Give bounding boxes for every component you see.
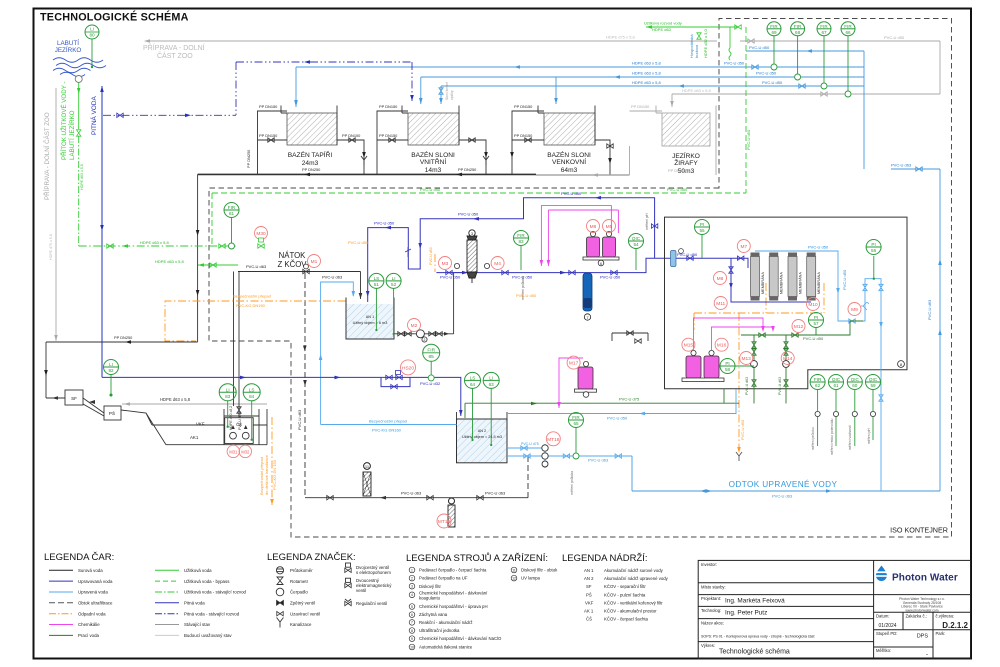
svg-text:59: 59: [870, 383, 876, 388]
svg-text:M16: M16: [717, 343, 727, 349]
svg-text:LI: LI: [109, 362, 113, 367]
svg-text:QIC: QIC: [851, 377, 860, 382]
svg-text:56: 56: [871, 248, 877, 253]
svg-text:PVC-U d50: PVC-U d50: [607, 416, 628, 421]
svg-text:PP DN150: PP DN150: [259, 104, 278, 109]
svg-text:SF: SF: [71, 396, 77, 401]
svg-text:BAZÉN SLONI: BAZÉN SLONI: [411, 150, 455, 159]
svg-text:VENKOVNÍ: VENKOVNÍ: [552, 157, 586, 166]
svg-text:24m3: 24m3: [302, 160, 319, 167]
svg-text:PVC-KG DN160: PVC-KG DN160: [372, 428, 402, 433]
svg-text:PVC-KG DN150: PVC-KG DN150: [236, 303, 266, 308]
svg-text:10: 10: [410, 645, 414, 649]
svg-text:HDPE d75 x 5,8: HDPE d75 x 5,8: [606, 35, 635, 40]
svg-text:HDPE d63 x 5,8: HDPE d63 x 5,8: [160, 397, 191, 402]
svg-text:měření vodivosti: měření vodivosti: [848, 425, 852, 450]
svg-text:Photon Water: Photon Water: [892, 573, 958, 584]
svg-text:www.photonwater.com: www.photonwater.com: [906, 608, 939, 612]
svg-text:82: 82: [108, 368, 114, 373]
svg-text:PP DN250: PP DN250: [302, 167, 321, 172]
svg-text:PVC-U d50: PVC-U d50: [884, 35, 905, 40]
svg-text:PVC-U d50: PVC-U d50: [749, 45, 770, 50]
svg-text:ISO KONTEJNER: ISO KONTEJNER: [890, 526, 948, 535]
svg-text:PVC-U d63: PVC-U d63: [401, 491, 422, 496]
svg-text:VKF: VKF: [196, 422, 205, 427]
svg-text:M7: M7: [740, 244, 747, 250]
svg-text:PP DN150: PP DN150: [514, 104, 533, 109]
svg-text:PVC-U d50: PVC-U d50: [429, 247, 433, 265]
svg-text:Stávající stav: Stávající stav: [184, 622, 211, 627]
svg-text:LEGENDA NÁDRŽÍ:: LEGENDA NÁDRŽÍ:: [562, 553, 648, 564]
svg-text:2: 2: [424, 338, 426, 342]
svg-text:M3: M3: [442, 261, 449, 267]
svg-text:M14: M14: [783, 356, 793, 362]
svg-text:HDPE d63 x 5,8: HDPE d63 x 5,8: [632, 71, 661, 76]
svg-text:PP DN150: PP DN150: [259, 133, 278, 138]
svg-text:Rotametr: Rotametr: [290, 579, 309, 584]
svg-text:PI: PI: [725, 361, 729, 366]
svg-text:PP DN150: PP DN150: [514, 133, 533, 138]
svg-text:Stupeň PD:: Stupeň PD:: [876, 631, 897, 636]
svg-text:Místo stavby:: Místo stavby:: [701, 585, 726, 590]
svg-text:63: 63: [489, 382, 495, 387]
svg-text:51: 51: [374, 282, 380, 287]
svg-text:PP DN250: PP DN250: [458, 167, 477, 172]
svg-text:FIR: FIR: [820, 24, 828, 29]
svg-text:PVC-U d63: PVC-U d63: [778, 377, 782, 395]
svg-text:Technolog:: Technolog:: [701, 608, 721, 613]
svg-text:Reakční - akumulační nádrž: Reakční - akumulační nádrž: [419, 620, 473, 625]
svg-text:ŽIRAFY: ŽIRAFY: [674, 158, 698, 167]
svg-text:Užitkový rozvod vody: Užitkový rozvod vody: [644, 21, 682, 26]
svg-text:PVC-U d63: PVC-U d63: [297, 409, 302, 430]
svg-text:LS: LS: [470, 375, 476, 380]
svg-text:HDPE d63 x 5,8: HDPE d63 x 5,8: [80, 164, 84, 190]
svg-text:PVC-U d32: PVC-U d32: [420, 381, 441, 386]
svg-text:HDPE d63 x 5,8: HDPE d63 x 5,8: [632, 80, 661, 85]
svg-text:PVC-U d50: PVC-U d50: [803, 336, 824, 341]
svg-text:měření průtoku: měření průtoku: [570, 471, 574, 495]
svg-text:M6: M6: [590, 224, 597, 230]
svg-text:M31: M31: [229, 449, 238, 454]
svg-text:8: 8: [411, 629, 413, 633]
svg-text:D.2.1.2: D.2.1.2: [942, 621, 968, 630]
svg-text:61: 61: [833, 383, 839, 388]
svg-text:QIC: QIC: [632, 236, 641, 241]
svg-text:PVC-U d50: PVC-U d50: [561, 191, 582, 196]
svg-text:M15: M15: [684, 343, 694, 349]
svg-text:QIC: QIC: [869, 377, 878, 382]
svg-text:M2: M2: [411, 323, 418, 329]
svg-text:52: 52: [391, 282, 397, 287]
svg-text:KČOV - pulzní šachta: KČOV - pulzní šachta: [604, 592, 646, 597]
svg-text:FIR: FIR: [427, 347, 435, 353]
svg-text:č.výkresu:: č.výkresu:: [936, 614, 955, 619]
svg-text:Odpadní voda: Odpadní voda: [78, 611, 106, 616]
svg-text:PŘÍPRAVA - DOLNÍ ČÁST ZOO: PŘÍPRAVA - DOLNÍ ČÁST ZOO: [43, 112, 51, 200]
svg-text:80: 80: [89, 33, 95, 38]
svg-text:Užitková voda - stávající rozv: Užitková voda - stávající rozvod: [184, 590, 247, 595]
svg-text:Měřítko:: Měřítko:: [876, 648, 891, 653]
svg-text:12: 12: [512, 576, 516, 580]
svg-text:Užitný objem = 24,5 m3: Užitný objem = 24,5 m3: [462, 435, 502, 439]
svg-text:Ing. Peter Putz: Ing. Peter Putz: [725, 610, 767, 617]
svg-text:Datum:: Datum:: [876, 614, 890, 619]
svg-text:M13: M13: [742, 356, 752, 362]
svg-text:3: 3: [411, 585, 413, 589]
svg-text:MEMBRÁNA: MEMBRÁNA: [799, 272, 803, 294]
svg-text:PI: PI: [700, 222, 704, 227]
svg-text:PVC-U d63: PVC-U d63: [485, 491, 506, 496]
svg-text:Budoucí uvažovaný stav: Budoucí uvažovaný stav: [184, 633, 232, 638]
svg-text:Upravená voda: Upravená voda: [78, 590, 108, 595]
svg-text:Chemické hospodářství - úprava: Chemické hospodářství - úprava pH: [419, 604, 488, 609]
svg-text:FIR: FIR: [844, 24, 852, 29]
svg-text:64m3: 64m3: [561, 167, 578, 174]
svg-text:PI: PI: [814, 315, 818, 320]
svg-text:VKF: VKF: [585, 600, 594, 605]
svg-text:AK 1: AK 1: [584, 609, 594, 614]
svg-text:PVC-U d50: PVC-U d50: [420, 187, 441, 192]
svg-text:LEGENDA ČAR:: LEGENDA ČAR:: [44, 552, 114, 563]
svg-text:BAZÉN TAPÍŘI: BAZÉN TAPÍŘI: [288, 150, 333, 159]
svg-text:Automatická tlaková stanice: Automatická tlaková stanice: [419, 645, 473, 650]
svg-text:01/2024: 01/2024: [879, 623, 897, 629]
svg-text:65: 65: [573, 421, 579, 426]
svg-text:PVC-U d75: PVC-U d75: [521, 442, 539, 446]
svg-text:M30: M30: [256, 231, 266, 237]
svg-text:83: 83: [518, 239, 524, 244]
svg-text:PVC-U d50: PVC-U d50: [458, 212, 479, 217]
svg-text:opičky: opičky: [450, 90, 454, 100]
svg-text:MT18: MT18: [547, 437, 560, 443]
svg-text:HDPE d75 x 5,8: HDPE d75 x 5,8: [49, 234, 53, 260]
svg-text:Diskový filtr: Diskový filtr: [419, 584, 442, 589]
svg-text:koagulantu: koagulantu: [419, 595, 441, 600]
svg-text:SOPS: PS 01 - Kontejnerová úp: SOPS: PS 01 - Kontejnerová úprava vody -…: [701, 635, 814, 639]
svg-text:PVC-U d63: PVC-U d63: [588, 458, 609, 463]
svg-text:85: 85: [429, 354, 435, 360]
svg-text:MEMBRÁNA: MEMBRÁNA: [780, 272, 784, 294]
svg-text:68: 68: [795, 30, 801, 35]
svg-text:55: 55: [699, 228, 705, 233]
svg-text:Užitková voda: Užitková voda: [184, 568, 212, 573]
svg-text:AN 2: AN 2: [584, 576, 594, 581]
svg-text:PVC-U d50: PVC-U d50: [374, 221, 395, 226]
svg-text:měření pH: měření pH: [867, 428, 871, 444]
svg-text:M11: M11: [716, 301, 725, 307]
svg-text:Pitná voda: Pitná voda: [184, 601, 205, 606]
svg-text:FIR: FIR: [770, 24, 778, 29]
svg-text:PP DN100: PP DN100: [342, 133, 361, 138]
svg-text:Z KČOV: Z KČOV: [277, 260, 307, 269]
svg-text:Akumulační nádrž upravené vody: Akumulační nádrž upravené vody: [604, 576, 669, 581]
svg-text:LI: LI: [90, 27, 94, 32]
svg-text:LS: LS: [249, 387, 255, 392]
svg-text:FIR: FIR: [794, 24, 802, 29]
svg-text:AN 2: AN 2: [478, 429, 486, 433]
svg-text:AN 1: AN 1: [584, 568, 594, 573]
svg-text:PP DN150: PP DN150: [379, 104, 398, 109]
svg-text:83: 83: [225, 394, 231, 399]
svg-text:FIR: FIR: [228, 205, 236, 210]
svg-text:Park:: Park:: [936, 631, 946, 636]
svg-text:PVC-U d50: PVC-U d50: [724, 61, 745, 66]
svg-text:QIC: QIC: [832, 377, 841, 382]
svg-text:M1: M1: [311, 259, 318, 265]
svg-text:PP DN150: PP DN150: [631, 104, 650, 109]
svg-text:PVC-U d63: PVC-U d63: [891, 163, 912, 168]
svg-text:64: 64: [470, 382, 476, 387]
svg-text:HS20: HS20: [402, 365, 414, 371]
svg-text:M17: M17: [569, 361, 579, 367]
svg-text:M9: M9: [851, 307, 858, 313]
svg-text:Chemické hospodářství - dávkov: Chemické hospodářství - dávkování NaClO: [419, 636, 502, 641]
svg-text:Investor:: Investor:: [701, 562, 717, 567]
svg-text:60: 60: [852, 383, 858, 388]
svg-text:PVC-U d50: PVC-U d50: [440, 275, 461, 280]
svg-text:HDPE d63 x 5,8: HDPE d63 x 5,8: [632, 61, 661, 66]
svg-text:MEMBRÁNA: MEMBRÁNA: [761, 272, 765, 294]
svg-text:Podávací čerpadlo na UF: Podávací čerpadlo na UF: [419, 576, 468, 581]
svg-text:LEGENDA ZNAČEK:: LEGENDA ZNAČEK:: [267, 552, 356, 563]
svg-text:4: 4: [411, 593, 413, 597]
svg-text:11: 11: [512, 568, 516, 572]
svg-text:Užitný objem = 6 m3: Užitný objem = 6 m3: [353, 321, 388, 325]
svg-text:Obtok ultrafiltrace: Obtok ultrafiltrace: [78, 601, 113, 606]
svg-text:PVC-U d50: PVC-U d50: [762, 80, 783, 85]
svg-text:LABUTÍ JEZÍRKO: LABUTÍ JEZÍRKO: [69, 110, 76, 160]
svg-text:PVC-U d63: PVC-U d63: [772, 494, 793, 499]
svg-text:Zpětný ventil: Zpětný ventil: [290, 601, 315, 606]
svg-text:FIR: FIR: [517, 233, 525, 238]
svg-text:Ing. Markéta Feixová: Ing. Markéta Feixová: [725, 598, 785, 605]
svg-text:7: 7: [411, 621, 413, 625]
svg-text:LI: LI: [226, 387, 230, 392]
svg-text:6: 6: [411, 613, 413, 617]
svg-text:Technologické schéma: Technologické schéma: [719, 649, 790, 656]
svg-text:84: 84: [249, 394, 255, 399]
svg-text:PI: PI: [871, 242, 875, 247]
svg-text:UV lampa: UV lampa: [521, 576, 540, 581]
svg-text:M10: M10: [808, 302, 818, 308]
svg-text:PP DN250: PP DN250: [114, 335, 133, 340]
svg-text:BAZÉN SLONI: BAZÉN SLONI: [547, 150, 591, 159]
svg-text:budova: budova: [694, 44, 699, 58]
svg-text:PVC-U d63: PVC-U d63: [745, 377, 749, 395]
svg-text:-: -: [926, 651, 928, 658]
svg-text:67: 67: [821, 30, 827, 35]
svg-text:PVC-U d90: PVC-U d90: [740, 419, 745, 440]
svg-text:LABUTÍ: LABUTÍ: [57, 38, 79, 47]
svg-text:62: 62: [815, 383, 821, 388]
svg-text:JEZÍRKO: JEZÍRKO: [55, 45, 82, 54]
svg-text:66: 66: [845, 30, 851, 35]
svg-text:PVC-KG DN 150: PVC-KG DN 150: [272, 459, 277, 490]
svg-text:KČOV - vertikální kořenový fil: KČOV - vertikální kořenový filtr: [604, 600, 663, 605]
svg-text:PŠ: PŠ: [586, 592, 592, 597]
svg-text:Výkres:: Výkres:: [701, 643, 715, 648]
svg-text:VNITŘNÍ: VNITŘNÍ: [420, 157, 447, 166]
svg-text:PITNÁ VODA: PITNÁ VODA: [89, 96, 98, 135]
svg-text:Chemikálie: Chemikálie: [78, 622, 100, 627]
svg-text:PŠ: PŠ: [109, 410, 115, 416]
svg-text:SF: SF: [586, 584, 592, 589]
svg-text:Projektant:: Projektant:: [701, 596, 721, 601]
svg-text:Upravovaná voda: Upravovaná voda: [78, 579, 113, 584]
svg-text:PP DN250: PP DN250: [246, 149, 251, 168]
svg-text:PŘÍPRAVA - DOLNÍ: PŘÍPRAVA - DOLNÍ: [143, 43, 205, 52]
svg-text:DPS: DPS: [917, 634, 929, 640]
svg-text:LEGENDA STROJŮ A ZAŘÍZENÍ:: LEGENDA STROJŮ A ZAŘÍZENÍ:: [406, 552, 548, 564]
svg-text:PVC-U d63: PVC-U d63: [246, 264, 267, 269]
svg-text:Zakázka č.:: Zakázka č.:: [906, 614, 927, 619]
svg-text:NÁTOK: NÁTOK: [279, 251, 307, 260]
svg-text:ventil: ventil: [356, 588, 366, 593]
svg-text:LI: LI: [489, 375, 493, 380]
svg-text:PVC-U d50: PVC-U d50: [348, 240, 369, 245]
svg-text:Ultrafiltrační jednotka: Ultrafiltrační jednotka: [419, 628, 460, 633]
svg-text:Podávací čerpadlo - čerpací ša: Podávací čerpadlo - čerpací šachta: [419, 568, 487, 573]
svg-text:měření průtoku: měření průtoku: [811, 427, 815, 450]
svg-text:58: 58: [725, 367, 731, 372]
svg-text:PVC-U d63: PVC-U d63: [322, 275, 343, 280]
svg-text:Průtokoměr: Průtokoměr: [290, 568, 313, 573]
svg-text:Bezpečnostní přepad: Bezpečnostní přepad: [233, 294, 271, 299]
svg-text:M5: M5: [606, 224, 613, 230]
svg-text:HDPE d63 x 5,8: HDPE d63 x 5,8: [155, 259, 184, 264]
svg-text:Sloní krmné: Sloní krmné: [445, 82, 449, 100]
svg-text:Užitková voda - bypass: Užitková voda - bypass: [184, 579, 230, 584]
svg-text:69: 69: [771, 30, 777, 35]
svg-text:Prací voda: Prací voda: [78, 633, 100, 638]
svg-text:HDPE d63 x 5,8: HDPE d63 x 5,8: [140, 240, 169, 245]
svg-text:M4: M4: [494, 261, 501, 267]
svg-text:Pitná voda - stávající rozvod: Pitná voda - stávající rozvod: [184, 611, 240, 616]
svg-text:M32: M32: [241, 449, 250, 454]
svg-text:FIR: FIR: [572, 415, 580, 420]
svg-text:PVC-U d50: PVC-U d50: [667, 187, 688, 192]
svg-text:JEZÍRKO: JEZÍRKO: [672, 151, 700, 160]
svg-text:14m3: 14m3: [425, 167, 442, 174]
svg-text:LI: LI: [392, 276, 396, 281]
svg-text:KČOV - separační filtr: KČOV - separační filtr: [604, 584, 646, 589]
svg-text:Regulační ventil: Regulační ventil: [356, 601, 387, 606]
svg-text:Surová voda: Surová voda: [78, 568, 103, 573]
svg-text:FIR: FIR: [814, 377, 822, 382]
svg-text:54: 54: [633, 242, 639, 247]
svg-text:HDPE d32 x 3,0: HDPE d32 x 3,0: [703, 29, 708, 58]
svg-text:HDPE d63 x 5,8: HDPE d63 x 5,8: [682, 88, 711, 93]
svg-text:Záchytná vana: Záchytná vana: [419, 612, 448, 617]
svg-text:81: 81: [229, 211, 235, 216]
svg-text:PVC-U d50: PVC-U d50: [746, 129, 751, 150]
svg-text:měření pH: měření pH: [645, 213, 649, 230]
svg-text:57: 57: [813, 321, 819, 326]
svg-text:MT19: MT19: [438, 519, 451, 525]
svg-text:M12: M12: [794, 324, 804, 330]
svg-text:PVC-U d50: PVC-U d50: [756, 71, 777, 76]
svg-text:AK1: AK1: [190, 435, 199, 440]
svg-text:6: 6: [600, 262, 602, 266]
svg-text:Bezpečnostní přepad: Bezpečnostní přepad: [369, 419, 407, 424]
svg-text:AN 1: AN 1: [366, 315, 374, 319]
svg-text:Čerpadlo: Čerpadlo: [290, 590, 308, 595]
svg-text:LS: LS: [374, 276, 380, 281]
svg-text:HDPE d90 x8,2: HDPE d90 x8,2: [229, 406, 233, 430]
svg-text:měření redox potenciálu: měření redox potenciálu: [830, 419, 834, 455]
svg-text:MEMBRÁNA: MEMBRÁNA: [817, 272, 821, 294]
svg-text:HDPE d63: HDPE d63: [652, 27, 672, 32]
svg-text:2: 2: [411, 576, 413, 580]
svg-text:Akumulační nádrž surové vody: Akumulační nádrž surové vody: [604, 568, 664, 573]
svg-text:5: 5: [411, 605, 413, 609]
svg-text:PVC-U d50: PVC-U d50: [808, 245, 829, 250]
svg-text:PVC-U d50: PVC-U d50: [516, 293, 537, 298]
svg-text:9: 9: [411, 637, 413, 641]
svg-text:PVC-U d50: PVC-U d50: [842, 269, 847, 290]
svg-text:s elektropohonem: s elektropohonem: [356, 570, 391, 575]
svg-text:KČOV - akumulační prostor: KČOV - akumulační prostor: [604, 609, 657, 614]
svg-text:Diskový filtr - obtok: Diskový filtr - obtok: [521, 568, 558, 573]
svg-text:M8: M8: [717, 276, 724, 282]
svg-text:ODTOK UPRAVENÉ VODY: ODTOK UPRAVENÉ VODY: [729, 479, 838, 489]
svg-text:PŘÍTOK UŽITKOVÉ VODY -: PŘÍTOK UŽITKOVÉ VODY -: [60, 81, 68, 160]
svg-text:do dešťové kanalizace: do dešťové kanalizace: [264, 454, 269, 495]
svg-text:Uzavírací ventil: Uzavírací ventil: [290, 611, 320, 616]
svg-text:Název akce:: Název akce:: [701, 621, 724, 626]
svg-text:ČŠ: ČŠ: [586, 617, 592, 622]
svg-text:ČÁST ZOO: ČÁST ZOO: [157, 51, 193, 60]
svg-text:TECHNOLOGICKÉ SCHÉMA: TECHNOLOGICKÉ SCHÉMA: [40, 11, 189, 24]
svg-text:PVC-U d75: PVC-U d75: [619, 397, 640, 402]
svg-text:1: 1: [411, 568, 413, 572]
svg-text:KČOV - čerpací šachta: KČOV - čerpací šachta: [604, 617, 649, 622]
svg-text:Kanalizace: Kanalizace: [290, 622, 312, 627]
svg-text:PVC-U d63: PVC-U d63: [927, 299, 932, 320]
svg-text:PP DN250: PP DN250: [668, 168, 687, 173]
svg-text:PVC-U d63: PVC-U d63: [238, 412, 242, 430]
